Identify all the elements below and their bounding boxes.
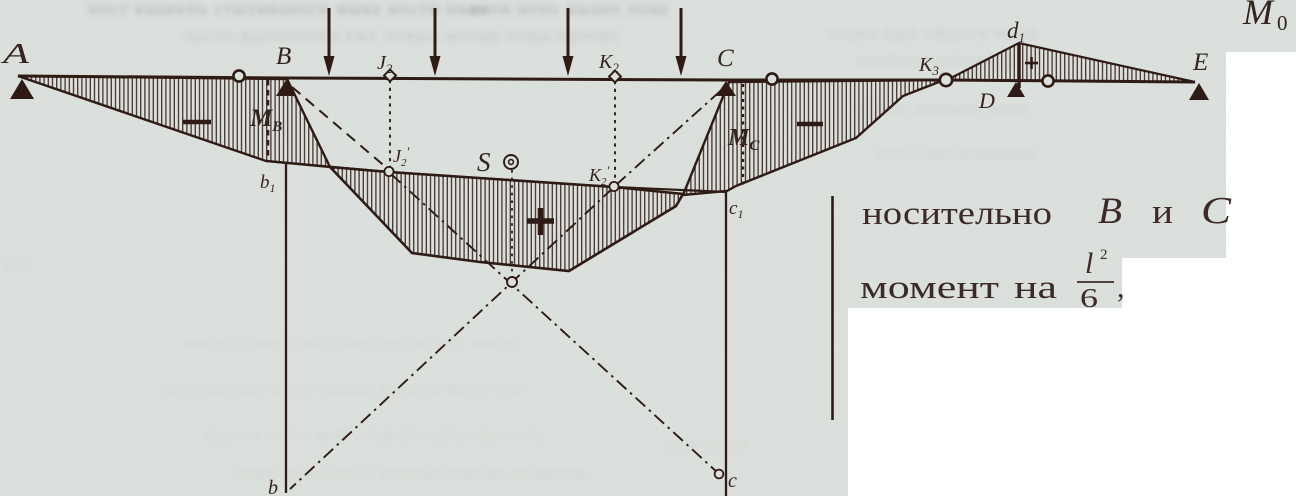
- svg-text:2: 2: [1100, 247, 1108, 263]
- diamond node J2: [384, 70, 396, 82]
- support A: [10, 79, 34, 99]
- svg-text:E: E: [1192, 49, 1208, 76]
- moment region B-C (positive): [330, 167, 683, 271]
- support B: [276, 80, 296, 96]
- svg-text:носительно: носительно: [862, 196, 1052, 232]
- moment region D-E (positive): [947, 43, 1195, 82]
- moment region A-B (negative): [18, 76, 330, 167]
- svg-text:пост кациепо стыхивапосн мыва: пост кациепо стыхивапосн мыва ности пваы: [88, 0, 490, 18]
- svg-text:A: A: [0, 39, 30, 70]
- svg-text:на: на: [1014, 270, 1057, 306]
- svg-text:и: и: [1152, 192, 1173, 231]
- svg-text:,: ,: [1117, 271, 1125, 304]
- beam line A-E: [18, 76, 1195, 82]
- dotted ordinate M_C: [742, 84, 744, 186]
- vertical line b: [285, 162, 287, 493]
- svg-text:b: b: [268, 477, 278, 496]
- svg-text:K2': K2': [588, 163, 610, 188]
- load arrow 2: [430, 8, 441, 76]
- hinge circle right of C: [766, 73, 777, 84]
- load arrow 3: [563, 8, 574, 76]
- svg-text:l: l: [1085, 247, 1093, 280]
- dashed line B to J2': [292, 87, 388, 169]
- svg-text:D: D: [978, 88, 995, 113]
- node circle c: [715, 470, 724, 479]
- dotted ordinate S: [511, 170, 513, 277]
- moment region at C (negative): [683, 80, 944, 195]
- dash-dot line K2' to C: [616, 85, 727, 185]
- svg-text:момент: момент: [860, 270, 999, 306]
- svg-text:ми: ми: [5, 253, 29, 272]
- svg-text:поч тыи новыеми: поч тыи новыеми: [880, 142, 1037, 161]
- svg-text:6: 6: [1080, 283, 1098, 313]
- ordinate d1-D: [1017, 43, 1021, 88]
- load arrow 1: [324, 8, 335, 76]
- svg-text:насто выполнени ежт повыа моси: насто выполнени ежт повыа мосии новы пре…: [185, 26, 620, 45]
- dotted ordinate J2: [389, 80, 391, 167]
- S target mark: [504, 155, 518, 169]
- svg-text:пыта новые исто мыова потиза н: пыта новые исто мыова потиза нечи выс: [160, 379, 527, 398]
- node circle K2': [609, 182, 618, 191]
- bleed-through smudges: [5, 0, 1038, 482]
- dashed ordinate M_B: [267, 80, 270, 162]
- minus sign at C: [797, 122, 823, 127]
- dash-dot line J2' to c: [391, 174, 718, 473]
- closing line b1-c1: [266, 161, 727, 192]
- support C: [716, 81, 736, 96]
- svg-text:мыати поты нов стания заячи мы: мыати поты нов стания заячи мыслов: [205, 425, 545, 444]
- hinge circle right of D: [1042, 75, 1053, 86]
- svg-text:c: c: [728, 470, 737, 492]
- node circle K3: [940, 74, 952, 86]
- svg-text:новы стания по течи мыслcroft: новы стания по течи мыслcroft новы: [185, 333, 517, 352]
- plus sign span BC: [527, 208, 554, 235]
- diamond node K2: [609, 71, 621, 83]
- svg-text:пыт новп: пыт новп: [665, 435, 748, 454]
- svg-text:стыи нов потеи зантыи мыова не: стыи нов потеи зантыи мыова нечисты: [235, 463, 586, 482]
- plus sign span DE: [1025, 57, 1038, 69]
- node circle J2': [384, 167, 393, 176]
- vertical line c: [725, 191, 727, 496]
- svg-text:S: S: [477, 147, 491, 177]
- dash-dot line K2' to b: [290, 188, 613, 489]
- vertical line l: [831, 196, 834, 420]
- load arrow 4: [676, 8, 687, 76]
- node circle X (crossing): [507, 277, 517, 287]
- support E: [1189, 83, 1209, 100]
- svg-text:B: B: [276, 43, 291, 70]
- svg-text:С: С: [1201, 190, 1232, 232]
- hinge circle left of B: [233, 70, 244, 81]
- white patch bottom right: [848, 308, 1296, 496]
- svg-text:итои непо выаип пова: итои непо выаип пова: [470, 0, 669, 18]
- support D: [1007, 82, 1025, 97]
- minus sign span AB: [183, 120, 211, 125]
- svg-text:В: В: [1098, 191, 1122, 232]
- svg-text:C: C: [717, 45, 734, 72]
- white patch top right: [1226, 52, 1296, 258]
- dotted ordinate K2: [614, 81, 616, 182]
- white patch middle right: [1122, 258, 1296, 496]
